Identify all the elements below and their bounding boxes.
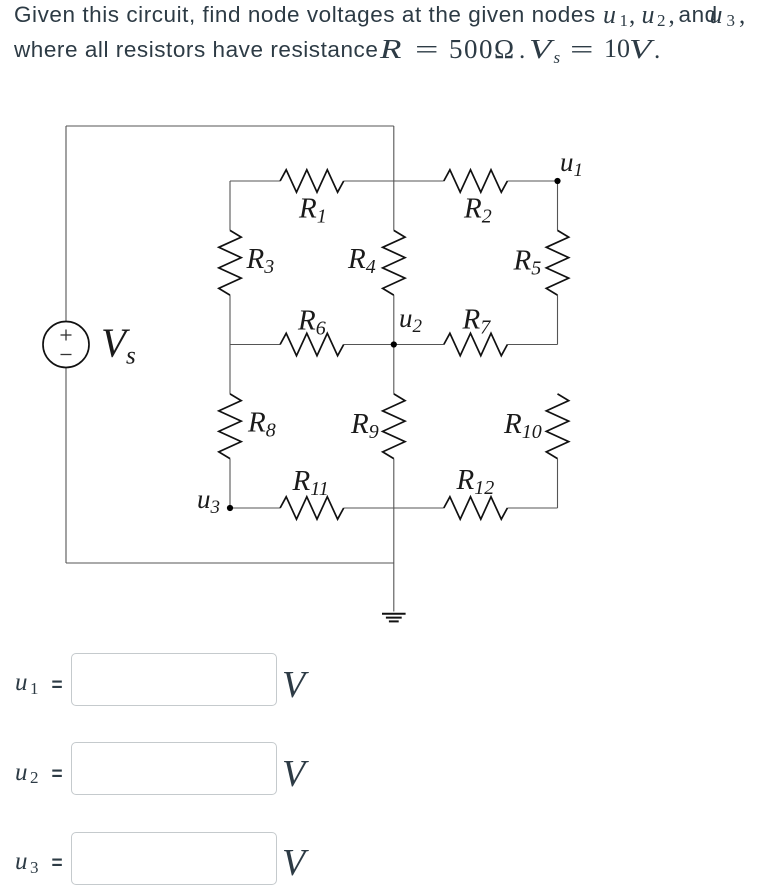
resistor R11 [280,497,344,519]
node u3 dot [227,505,233,511]
wire top row middle [344,180,444,182]
svg-text:R7: R7 [462,304,492,339]
svg-text:Vs: Vs [101,320,136,370]
svg-text:u1: u1 [560,147,583,181]
answer row u3 [15,849,28,874]
wire bottom row right lead [507,507,557,509]
wire mid row right lead [507,344,557,346]
resistor R7 [444,333,508,355]
resistor R12 [444,497,508,519]
resistor R8 [219,394,241,459]
wire left column between R3 and R8 [229,295,231,394]
wire middle column between R4 and R9 [393,295,395,394]
node u2 dot [391,341,397,347]
wire bottom row left lead [230,507,280,509]
wire right column upper lead [557,181,559,230]
resistor R5 [546,230,568,295]
svg-text:R1: R1 [298,193,327,228]
resistor R1 [280,170,344,192]
wire top row right lead [507,180,557,182]
node u1 dot [554,178,560,184]
svg-text:R2: R2 [463,193,492,228]
resistor R9 [383,394,405,459]
wire top row left lead [230,180,280,182]
problem statement line 1 [14,4,596,27]
wire bottom row middle [344,507,444,509]
answer row u1 [15,670,28,695]
voltage source minus sign [61,354,72,356]
svg-text:R12: R12 [456,464,495,499]
svg-text:R10: R10 [503,408,542,443]
svg-text:R6: R6 [297,305,326,340]
wire outer bottom [66,562,394,564]
wire outer left upper [65,126,67,322]
wire mid row left lead [230,344,280,346]
wire outer top [66,125,394,127]
resistor R2 [444,170,508,192]
voltage source Vs circle [43,322,89,368]
wire right column lower lead [557,459,559,508]
svg-text:R8: R8 [247,407,276,442]
resistor R6 [280,333,344,355]
svg-text:R4: R4 [347,243,376,278]
ground [382,614,406,622]
problem statement line 2 [14,39,378,62]
wire outer left lower [65,368,67,564]
wire left column upper lead [229,181,231,230]
wire right column between R5 and R10 [557,295,559,344]
resistor R4 [383,230,405,295]
svg-text:R9: R9 [350,408,379,443]
svg-text:u2: u2 [399,303,423,337]
svg-text:R3: R3 [246,243,275,278]
svg-text:R5: R5 [513,245,542,280]
resistor R3 [219,230,241,295]
voltage source plus sign [61,330,72,341]
wire mid row middle [344,344,444,346]
svg-text:u3: u3 [197,484,220,518]
resistor R10 [546,394,568,459]
wire middle column upper [393,126,395,230]
wire left column lower lead [229,459,231,508]
answer row u2 [15,760,28,785]
svg-text:R11: R11 [292,465,329,500]
wire middle column lower to ground [393,459,395,612]
